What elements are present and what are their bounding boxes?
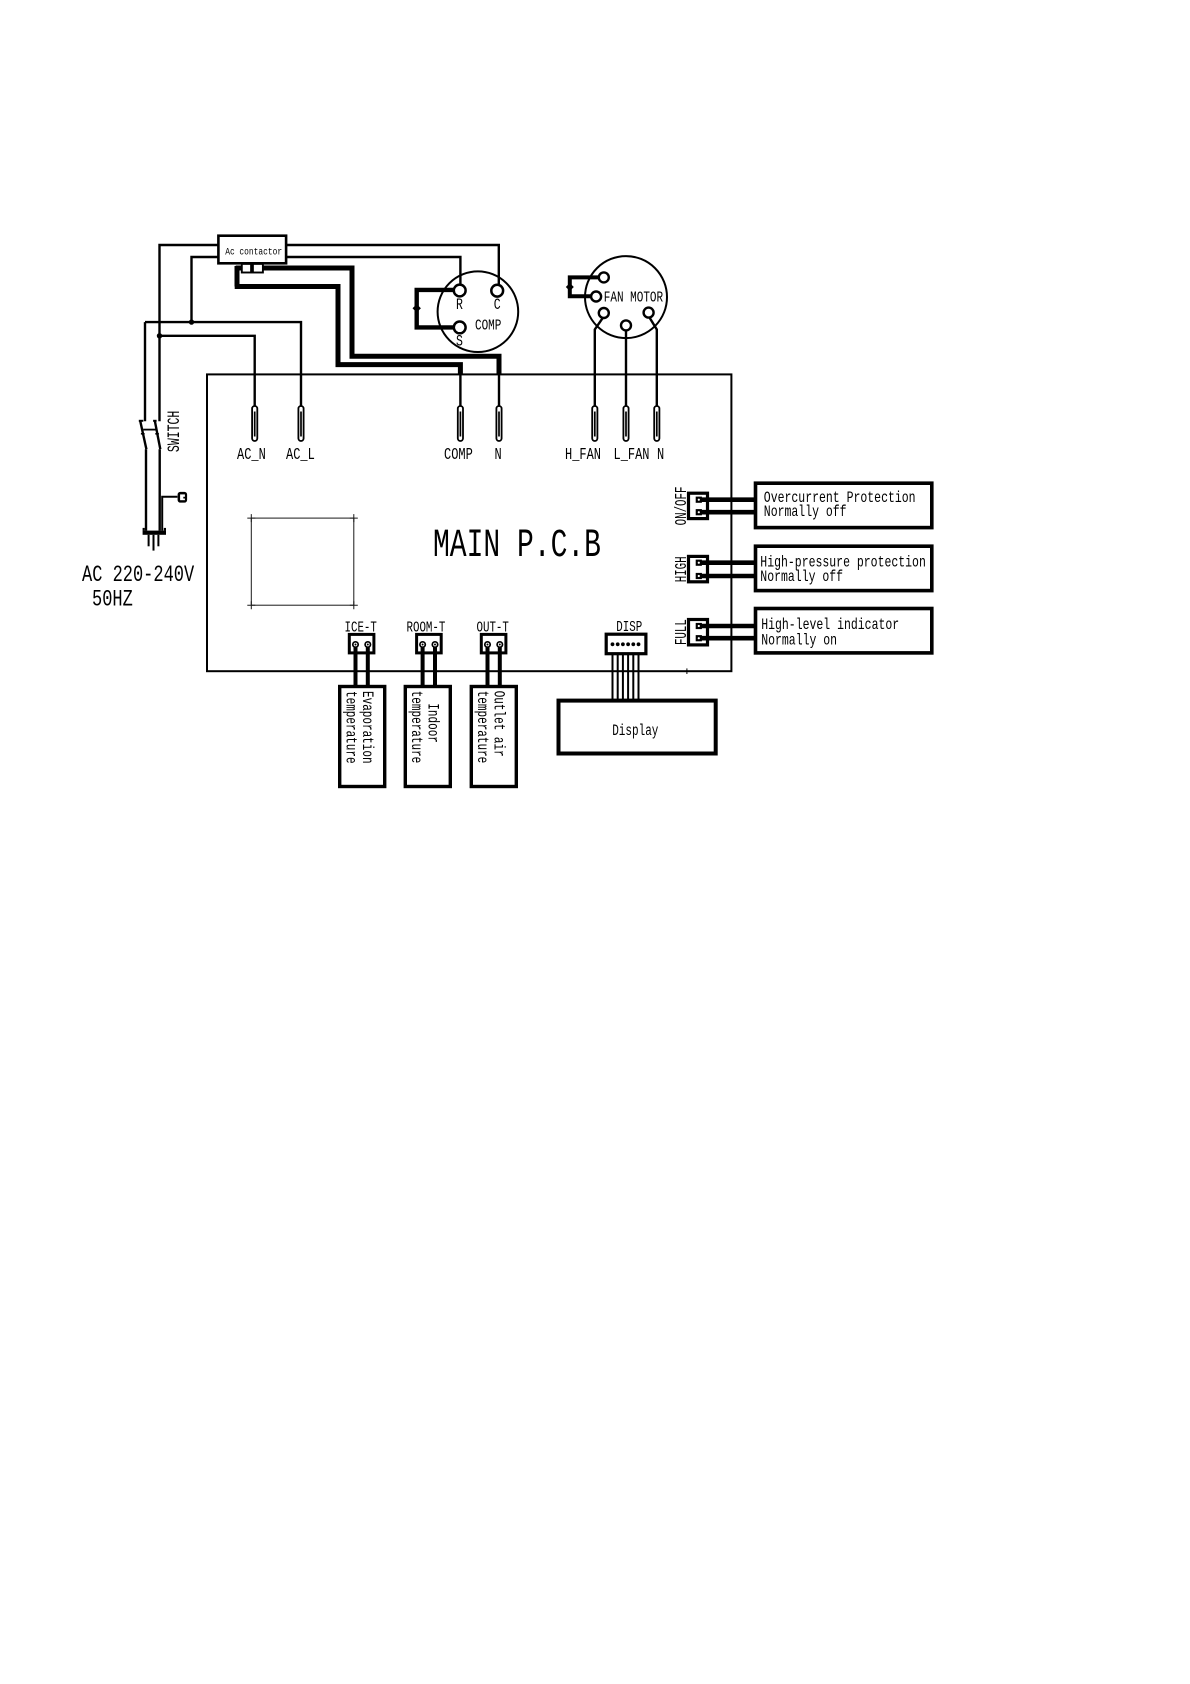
run capacitor (compressor R-S) xyxy=(413,290,454,328)
svg-text:temperature: temperature xyxy=(341,691,358,764)
svg-text:ON/OFF: ON/OFF xyxy=(673,487,692,526)
wire switch right (from J1) xyxy=(158,336,160,421)
thick wire contactor terminal to N blade xyxy=(236,268,499,406)
connector blade N xyxy=(654,406,664,465)
tick on PCB bottom edge xyxy=(686,668,688,674)
svg-text:S: S xyxy=(456,334,463,351)
sensor box: Indoor temperature xyxy=(405,687,450,787)
svg-text:MAIN P.C.B: MAIN P.C.B xyxy=(433,524,601,569)
svg-text:COMP: COMP xyxy=(444,446,473,464)
svg-text:Indoor: Indoor xyxy=(423,703,440,743)
wire contactor left-bottom to junction J2 xyxy=(192,257,219,322)
wires FULL to note box xyxy=(700,626,756,638)
wire switch left (from AC_L line) xyxy=(144,322,146,421)
svg-text:N: N xyxy=(657,446,664,464)
wire contactor right-top to compressor C xyxy=(286,245,499,285)
junction J2 xyxy=(189,319,194,324)
connector blade COMP xyxy=(444,406,473,465)
svg-text:Evaporation: Evaporation xyxy=(357,691,374,764)
connector blade AC_N xyxy=(237,406,266,465)
wires ICE-T to sensor box xyxy=(356,647,368,686)
wire junction J1 to AC_N blade xyxy=(160,336,255,406)
wires ROOM-T to sensor box xyxy=(423,647,435,686)
svg-text:L_FAN: L_FAN xyxy=(614,446,650,464)
svg-text:FAN MOTOR: FAN MOTOR xyxy=(604,289,663,306)
svg-text:N: N xyxy=(495,446,502,464)
svg-text:Display: Display xyxy=(612,723,658,740)
connector FULL xyxy=(674,619,707,645)
label AC 220-240V 50HZ xyxy=(82,563,194,614)
connector blade N xyxy=(495,406,502,465)
AC contactor bottom terminals xyxy=(242,264,263,273)
wires ON/OFF to note box xyxy=(700,500,756,513)
note box: High-pressure protection xyxy=(756,546,932,590)
thick wire contactor terminal to COMP blade xyxy=(235,266,461,406)
svg-text:R: R xyxy=(456,298,463,315)
svg-text:AC_N: AC_N xyxy=(237,446,266,464)
svg-text:HIGH: HIGH xyxy=(674,556,692,582)
connector blade L_FAN xyxy=(614,406,650,465)
PCB inner mounting square xyxy=(247,514,357,609)
wire contactor right-bottom to compressor R xyxy=(286,257,460,285)
wire contactor left-top to junction J1 xyxy=(160,245,219,336)
connector DISP xyxy=(606,618,646,653)
wires OUT-T to sensor box xyxy=(488,647,500,686)
power plug xyxy=(143,528,166,551)
svg-text:Ac contactor: Ac contactor xyxy=(225,246,282,258)
connector HIGH xyxy=(674,556,707,582)
connector ROOM-T xyxy=(407,619,446,653)
svg-text:AC_L: AC_L xyxy=(286,446,315,464)
svg-text:Normally off: Normally off xyxy=(760,568,843,586)
sensor box: Evaporation temperature xyxy=(340,687,385,787)
connector ICE-T xyxy=(345,619,377,653)
main PCB outline xyxy=(207,374,731,671)
wire fan to H_FAN blade xyxy=(595,318,603,406)
note box: High-level indicator xyxy=(756,609,932,653)
compressor COMP xyxy=(438,271,519,352)
svg-text:COMP: COMP xyxy=(475,317,502,334)
label MAIN P.C.B xyxy=(433,524,601,569)
svg-text:C: C xyxy=(494,298,501,315)
svg-text:Outlet air: Outlet air xyxy=(489,691,506,757)
Display box xyxy=(559,701,716,754)
earth wire and pin xyxy=(162,492,187,531)
sensor box: Outlet air temperature xyxy=(471,687,516,787)
capacitor (fan motor) xyxy=(566,277,599,296)
wires HIGH to note box xyxy=(700,563,756,576)
svg-text:FULL: FULL xyxy=(674,619,692,645)
svg-text:AC 220-240V: AC 220-240V xyxy=(82,563,194,589)
wire switch to plug left xyxy=(145,449,147,530)
connector OUT-T xyxy=(477,619,509,653)
svg-text:SWITCH: SWITCH xyxy=(166,411,185,452)
svg-text:Normally off: Normally off xyxy=(764,503,847,521)
svg-text:50HZ: 50HZ xyxy=(92,587,133,613)
svg-text:Normally on: Normally on xyxy=(761,632,837,650)
wires DISP to Display xyxy=(613,654,639,701)
wire switch to plug right xyxy=(158,449,160,530)
svg-text:H_FAN: H_FAN xyxy=(565,446,601,464)
connector blade AC_L xyxy=(286,406,315,465)
switch (double pole) xyxy=(139,411,185,452)
junction J1 xyxy=(157,333,162,338)
wire fan to L_FAN blade xyxy=(625,330,627,406)
fan motor xyxy=(585,256,667,338)
wire fan to N blade xyxy=(649,317,656,406)
connector blade H_FAN xyxy=(565,406,601,465)
wire switch-top / junction J2 to AC_L blade xyxy=(145,322,301,406)
svg-text:temperature: temperature xyxy=(472,691,489,764)
AC contactor xyxy=(218,236,286,264)
svg-text:temperature: temperature xyxy=(406,691,423,764)
connector ON/OFF xyxy=(673,487,708,526)
note box: Overcurrent Protection xyxy=(756,483,932,527)
